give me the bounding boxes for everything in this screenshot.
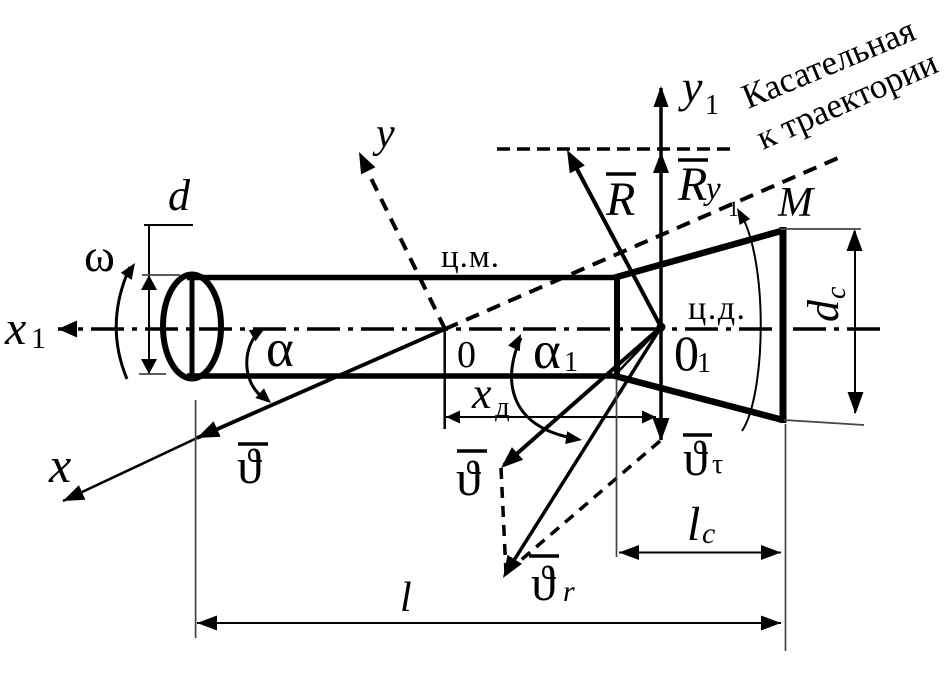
alpha angle arc <box>247 328 271 403</box>
svg-text:x: x <box>471 369 492 418</box>
body end cap <box>614 275 620 379</box>
label theta bar right <box>456 450 487 506</box>
nozzle arc with arrow <box>737 208 761 431</box>
extension line d_c bottom <box>784 420 864 425</box>
svg-text:M: M <box>777 180 815 226</box>
axis y1 with vectors Ry1 and theta-tau <box>653 86 670 441</box>
dashed horizontal level line <box>497 147 734 151</box>
svg-text:R: R <box>677 158 707 211</box>
svg-text:x: x <box>48 437 71 493</box>
vector theta-r <box>503 327 661 578</box>
vector R <box>567 150 661 327</box>
projectile body bottom line <box>187 373 618 379</box>
extension line at nozzle start <box>616 380 618 557</box>
svg-text:l: l <box>687 498 700 551</box>
label R bar <box>605 173 636 226</box>
alpha1 angle arc <box>508 334 582 444</box>
label theta-tau bar <box>683 430 723 486</box>
svg-text:x: x <box>4 302 26 355</box>
svg-text:c: c <box>702 517 715 550</box>
axis x and vector theta from 0 <box>63 329 445 501</box>
thin line 01 to nozzle corner <box>616 327 661 374</box>
svg-text:ω: ω <box>84 230 115 282</box>
dimension l <box>197 616 781 631</box>
nozzle top edge <box>615 231 783 278</box>
svg-text:ц.м.: ц.м. <box>441 239 500 275</box>
svg-text:ϑ: ϑ <box>456 450 481 506</box>
svg-text:ϑ: ϑ <box>237 438 262 494</box>
axis y (dashed) with arrow <box>359 152 445 329</box>
dimension d_c <box>847 229 864 414</box>
svg-text:ϑ: ϑ <box>531 555 556 611</box>
svg-text:τ: τ <box>712 449 723 480</box>
vector theta from 01 <box>501 327 661 468</box>
dimension x_d <box>446 411 656 424</box>
dimension l_c <box>619 545 781 560</box>
extension line d_c top <box>780 228 861 230</box>
extension line at nozzle exit <box>785 424 787 651</box>
svg-text:d: d <box>168 171 191 220</box>
axis x1 (dash-dot) <box>58 321 880 338</box>
svg-text:1: 1 <box>705 90 719 121</box>
label d_c <box>799 286 852 322</box>
svg-text:r: r <box>563 575 575 608</box>
omega rotation arc <box>116 263 135 379</box>
label x_d <box>471 369 510 423</box>
label 01 <box>674 325 711 381</box>
svg-text:ϑ: ϑ <box>683 430 708 486</box>
front ellipse vertical diameter <box>190 275 195 379</box>
projectile body top line <box>187 275 618 281</box>
dimension d <box>139 225 193 374</box>
dashed line theta tip down <box>501 468 506 573</box>
label theta bar left <box>237 438 268 494</box>
svg-text:α: α <box>533 322 561 380</box>
nozzle bottom edge <box>615 376 783 420</box>
svg-text:y: y <box>372 111 395 157</box>
svg-text:1: 1 <box>564 347 578 378</box>
svg-text:ц.д.: ц.д. <box>688 290 747 327</box>
svg-text:y: y <box>678 61 703 112</box>
node dot 01 <box>657 323 666 332</box>
svg-text:c: c <box>821 286 852 299</box>
svg-text:1: 1 <box>697 348 711 379</box>
extension line left <box>195 400 197 638</box>
label y1 <box>678 61 719 121</box>
label alpha1 <box>533 322 578 380</box>
label l_c <box>687 498 715 551</box>
svg-text:д: д <box>495 391 510 423</box>
svg-text:l: l <box>400 575 412 621</box>
dashed line theta-tau tip to theta-r tip <box>507 441 660 572</box>
label theta-r bar <box>529 555 575 611</box>
nozzle exit edge <box>780 227 787 423</box>
label Ry1 bar <box>677 158 739 221</box>
front ellipse <box>163 275 221 379</box>
svg-text:R: R <box>605 173 635 226</box>
svg-text:d: d <box>799 299 848 322</box>
line below 0 <box>443 329 446 429</box>
label x1 <box>4 302 46 355</box>
svg-text:1: 1 <box>31 322 46 355</box>
svg-text:α: α <box>266 320 294 378</box>
svg-text:0: 0 <box>674 325 699 381</box>
svg-text:y: y <box>703 171 721 207</box>
tangent to trajectory (dashed) <box>445 158 838 329</box>
